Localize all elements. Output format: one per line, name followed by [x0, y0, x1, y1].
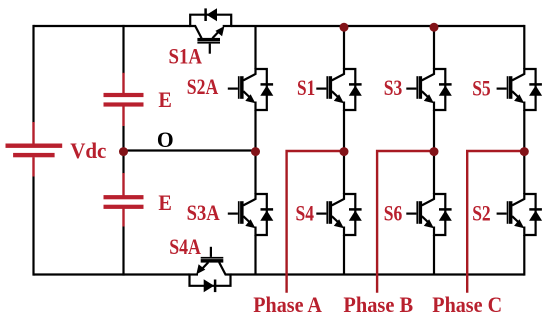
wire: left rail red segment below battery — [32, 157, 34, 176]
svg-text:E: E — [158, 190, 172, 215]
svg-text:Phase C: Phase C — [432, 292, 502, 317]
wire: leg2 middle segment — [343, 110, 345, 194]
wire: Phase C output — [467, 151, 524, 293]
wire: left rail red segment above battery — [32, 122, 34, 144]
svg-text:S3: S3 — [384, 75, 403, 100]
node dot at leg2 midpoint (Phase A) — [340, 147, 349, 156]
IGBT S1A (horizontal, on top rail) — [189, 8, 232, 54]
junction dot on top rail at leg2 — [340, 23, 349, 32]
wire: Phase A output — [287, 151, 344, 293]
wire: red lead above capacitor C2 — [122, 173, 124, 196]
battery Vdc plate short — [13, 153, 55, 157]
wire: capacitor leg black bottom segment — [122, 227, 124, 276]
wire: capacitor leg black above C1 — [122, 25, 124, 74]
wire: left rail lower black segment — [32, 177, 34, 276]
IGBT S3A — [228, 193, 273, 236]
wire: leg1 middle segment — [254, 110, 256, 194]
capacitor C1 plates — [104, 93, 144, 107]
wire: leg4 middle segment — [523, 110, 525, 194]
svg-text:Phase A: Phase A — [253, 292, 322, 317]
wire: O bus line — [124, 149, 256, 151]
wire: leg2 lower stub — [343, 235, 345, 275]
wire: capacitor leg black below node O — [122, 151, 124, 174]
svg-text:S3A: S3A — [187, 200, 220, 225]
wire: leg4 lower stub — [523, 235, 525, 276]
IGBT S5 — [497, 68, 543, 111]
IGBT S6 — [406, 193, 452, 236]
svg-text:S1: S1 — [297, 75, 315, 100]
wire: red lead above capacitor C1 — [122, 73, 124, 94]
node dot O at capacitor leg — [119, 147, 128, 156]
svg-text:Vdc: Vdc — [70, 138, 106, 163]
IGBT S2 — [497, 193, 543, 236]
wire: red lead below capacitor C1 — [122, 106, 124, 126]
svg-text:S5: S5 — [472, 76, 491, 101]
wire: red lead below capacitor C2 — [122, 208, 124, 226]
node dot at leg3 midpoint (Phase B) — [430, 147, 439, 156]
svg-text:Phase B: Phase B — [343, 292, 413, 317]
wire: bottom rail left section — [34, 273, 190, 275]
svg-text:E: E — [158, 87, 172, 112]
wire: top rail left section — [34, 25, 191, 27]
node dot at leg4 midpoint (Phase C) — [520, 147, 529, 156]
IGBT S2A — [228, 68, 273, 111]
wire: leg1 lower stub — [254, 235, 256, 275]
svg-text:S2: S2 — [472, 200, 491, 225]
wire: leg1 upper stub — [254, 26, 256, 69]
wire: bottom rail right section — [231, 273, 525, 275]
wire: leg3 upper stub — [433, 26, 435, 69]
battery Vdc plate long — [6, 144, 63, 148]
svg-text:S6: S6 — [384, 200, 403, 225]
wire: leg2 upper stub — [343, 26, 345, 69]
junction dot on top rail at leg3 — [430, 23, 439, 32]
wire: leg3 middle segment — [433, 110, 435, 194]
wire: top rail right section — [231, 25, 524, 27]
svg-text:O: O — [157, 127, 174, 152]
wire: left rail upper black segment — [32, 25, 34, 123]
capacitor C2 plates — [104, 195, 144, 209]
svg-text:S4: S4 — [296, 200, 315, 225]
svg-text:S1A: S1A — [169, 44, 203, 69]
IGBT S3 — [406, 68, 452, 111]
IGBT S4A (horizontal, on bottom rail) — [189, 247, 232, 292]
wire: capacitor leg black to node O — [122, 126, 124, 151]
node dot at leg1 midpoint — [251, 147, 260, 156]
wire: leg3 lower stub — [433, 235, 435, 275]
svg-text:S4A: S4A — [169, 234, 201, 259]
wire: leg4 upper stub — [523, 25, 525, 69]
wire: Phase B output — [377, 151, 434, 293]
IGBT S1 — [316, 68, 362, 111]
IGBT S4 — [316, 193, 362, 236]
svg-text:S2A: S2A — [187, 74, 218, 99]
